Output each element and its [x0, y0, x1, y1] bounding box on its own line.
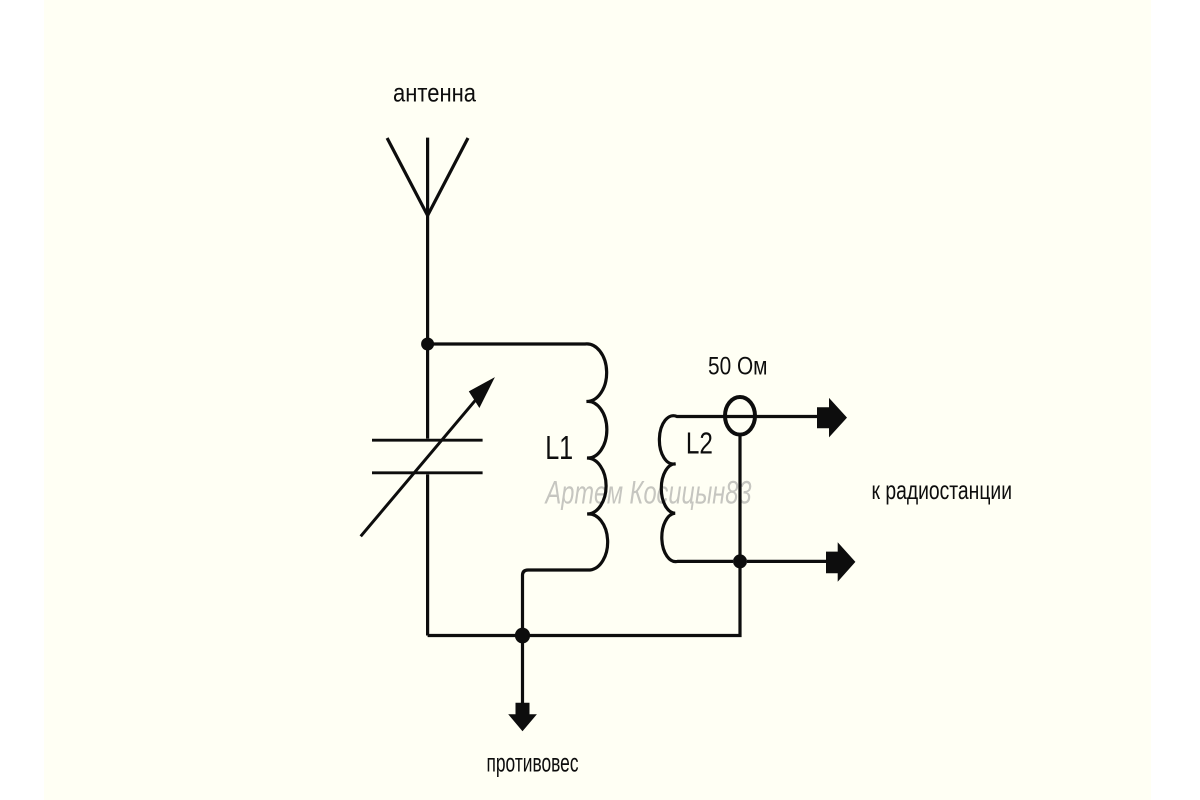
svg-text:Артем Косицын83: Артем Косицын83: [544, 474, 752, 510]
svg-text:к радиостанции: к радиостанции: [872, 475, 1013, 505]
svg-text:L2: L2: [686, 425, 713, 460]
svg-text:L1: L1: [545, 429, 573, 466]
svg-text:противовес: противовес: [487, 747, 579, 777]
svg-text:антенна: антенна: [393, 77, 476, 107]
svg-text:50 Ом: 50 Ом: [708, 353, 768, 381]
